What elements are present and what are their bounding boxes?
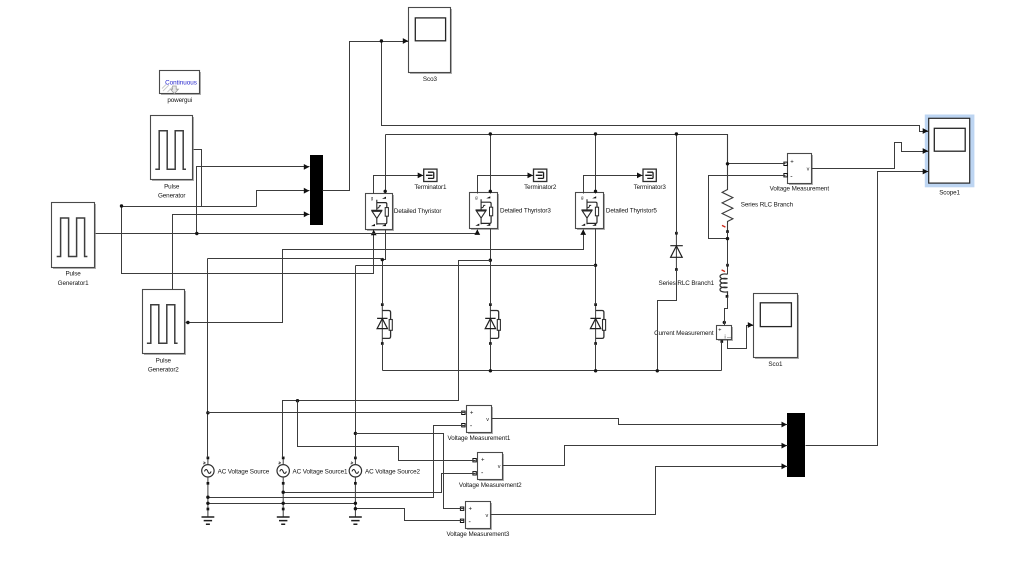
wire Mux2 output to Scope1 [806, 169, 929, 446]
Pulse Generator2 label [148, 357, 179, 373]
voltmeter Voltage Measurement1 label [448, 435, 511, 442]
wire neutral rail [208, 503, 356, 505]
wire Voltage Measurement2 minus [284, 474, 476, 493]
scope Sco3 label [423, 76, 438, 83]
svg-text:Terminator3: Terminator3 [634, 184, 667, 191]
wire Voltage Measurement minus [709, 176, 786, 239]
wire gate signal to Scope1 in1 [382, 42, 929, 134]
svg-text:Terminator1: Terminator1 [414, 184, 447, 191]
Pulse Generator1 label [58, 271, 89, 287]
wire mux in2 from Pulse Generator [257, 188, 310, 207]
junction bus-thy5 [594, 132, 597, 193]
voltmeter Voltage Measurement2 ports [473, 459, 476, 476]
powergui block [160, 71, 202, 96]
junction phaseC-col3 [594, 264, 597, 267]
junction thyristor1 anode [384, 190, 387, 193]
junction bus-freewheel [675, 132, 678, 135]
svg-text:Pulse: Pulse [156, 357, 172, 364]
svg-text:Voltage Measurement3: Voltage Measurement3 [447, 531, 510, 538]
wire Voltage Measurement2 plus [298, 401, 476, 461]
svg-text:Series RLC Branch: Series RLC Branch [741, 202, 794, 209]
voltmeter Voltage Measurement1 ports [462, 411, 465, 427]
junction neutral-B1 [282, 491, 285, 494]
svg-text:+: + [790, 160, 794, 166]
junction bus-d2 [489, 369, 492, 372]
voltmeter Voltage Measurement2 label [459, 482, 522, 489]
mux Mux2 [787, 413, 805, 477]
voltmeter Voltage Measurement [788, 154, 814, 186]
junction phaseB-VM2 [296, 399, 299, 402]
scope Scope1 label [939, 189, 960, 196]
wire diode2 bottom [490, 344, 492, 371]
wire phase C riser [355, 266, 357, 458]
wire Voltage Measurement plus [728, 163, 786, 165]
junction neutral-C1 [354, 507, 357, 510]
terminator Terminator2 label [524, 184, 557, 191]
svg-text:+: + [718, 328, 721, 334]
svg-text:+: + [470, 410, 474, 416]
diode Series RLC Branch1 label [658, 280, 714, 287]
svg-text:Terminator2: Terminator2 [524, 184, 557, 191]
wire Voltage Measurement3 minus [356, 509, 464, 521]
voltmeter Voltage Measurement3 label [447, 531, 510, 538]
ammeter ports [720, 321, 726, 343]
wire Voltage Measurement3 output [491, 463, 788, 514]
wire thyristor5 anode riser [595, 135, 597, 194]
svg-text:v: v [807, 167, 810, 173]
junction neutral dots [206, 502, 357, 505]
wire mux in1 from Pulse Generator1 [197, 164, 310, 234]
wire R to L link [727, 232, 729, 266]
AC source AC Voltage Source1 label [293, 468, 349, 475]
svg-text:AC Voltage Source1: AC Voltage Source1 [293, 468, 349, 475]
svg-text:Generator1: Generator1 [58, 280, 89, 287]
junction bus-freewheel-bot [656, 369, 659, 372]
wire thyristor1 anode riser [385, 135, 387, 194]
svg-text:Voltage Measurement2: Voltage Measurement2 [459, 482, 522, 489]
svg-text:v: v [498, 464, 501, 470]
svg-text:Sco3: Sco3 [423, 76, 438, 83]
voltmeter Voltage Measurement ports [784, 162, 787, 177]
wire phase C link [356, 265, 596, 267]
voltmeter Voltage Measurement label [770, 186, 830, 193]
thyristor Detailed Thyristor label [394, 208, 441, 215]
wire Mux1 output to Sco3 [323, 38, 409, 190]
inductor Series RLC Branch inductor [720, 265, 728, 296]
wire Voltage Measurement3 plus [356, 434, 464, 509]
AC source AC Voltage Source1 [277, 457, 289, 509]
wire bottom bus [383, 370, 722, 372]
thyristor Detailed Thyristor5 [576, 193, 606, 231]
svg-text:Series RLC Branch1: Series RLC Branch1 [658, 280, 714, 287]
mux Mux1 [310, 155, 323, 225]
voltmeter Voltage Measurement3 ports [460, 507, 463, 523]
wire Voltage Measurement1 minus [208, 426, 465, 498]
AC source AC Voltage Source2 label [365, 468, 421, 475]
Pulse Generator1 block [52, 203, 97, 270]
svg-text:Pulse: Pulse [164, 183, 180, 190]
resistor Series RLC Branch port [726, 230, 729, 233]
svg-text:v: v [486, 417, 489, 423]
resistor Series RLC Branch label [741, 202, 794, 209]
scope Sco1 label [768, 361, 783, 368]
terminator Terminator3 [643, 169, 656, 181]
voltmeter Voltage Measurement1 [467, 406, 494, 435]
wire L to Current Measurement [725, 297, 728, 326]
Pulse Generator block [151, 116, 195, 182]
svg-text:+: + [469, 507, 473, 513]
junction VM plus node [726, 162, 729, 165]
resistor Series RLC Branch [722, 134, 733, 231]
terminator Terminator1 label [414, 184, 447, 191]
diode D1 (snubber branch under Detailed Thyristor) [377, 303, 392, 345]
wire pulse1 distribution [122, 206, 257, 208]
Pulse Generator2 block [143, 290, 187, 356]
wire thyristor5 cathode to diode3 [595, 229, 597, 305]
wire Current Measurement bottom [721, 342, 723, 371]
ammeter Current Measurement [717, 326, 734, 342]
powergui label [167, 97, 192, 104]
svg-text:Voltage Measurement1: Voltage Measurement1 [448, 435, 511, 442]
svg-text:Detailed Thyristor3: Detailed Thyristor3 [500, 208, 551, 215]
wire Voltage Measurement1 output [492, 419, 788, 428]
wire phase A link [208, 258, 383, 260]
wire thyristor3 m to Terminator2 [478, 173, 534, 194]
scope Sco3 block [409, 8, 453, 75]
junction Sco3 node [380, 39, 383, 42]
wire phase A riser [207, 259, 209, 458]
junction neutral-A1 [206, 496, 209, 499]
AC source AC Voltage Source [202, 457, 214, 509]
wire Pulse Generator output [194, 150, 202, 207]
svg-text:Generator: Generator [158, 193, 185, 200]
scope Sco1 block [754, 294, 800, 360]
svg-text:AC Voltage Source: AC Voltage Source [218, 468, 270, 475]
wire thyristor3 anode riser [490, 135, 492, 194]
svg-text:powergui: powergui [167, 97, 192, 104]
wire phase B link [283, 261, 491, 458]
wire Current Measurement output to Sco1 [728, 322, 754, 348]
svg-text:Sco1: Sco1 [768, 361, 783, 368]
svg-text:Detailed Thyristor: Detailed Thyristor [394, 208, 441, 215]
svg-text:i: i [725, 335, 726, 341]
svg-text:Detailed Thyristor5: Detailed Thyristor5 [606, 208, 657, 215]
voltmeter Voltage Measurement2 [478, 453, 505, 482]
thyristor Detailed Thyristor5 label [606, 208, 657, 215]
wire thyristor1 cathode to diode1 [383, 230, 386, 305]
svg-text:v: v [486, 513, 489, 519]
Pulse Generator label [158, 183, 185, 199]
svg-text:Pulse: Pulse [65, 271, 81, 278]
diode D3 (snubber branch under Detailed Thyristor5) [590, 303, 605, 345]
terminator Terminator2 [534, 169, 547, 181]
ground symbol under AC Voltage Source1 [277, 508, 290, 525]
svg-text:Scope1: Scope1 [939, 189, 960, 196]
ground symbol under AC Voltage Source [202, 508, 215, 525]
junction phaseA-col1 [381, 258, 384, 261]
terminator Terminator3 label [634, 184, 667, 191]
inductor ports [726, 264, 729, 298]
scope Scope1 block [925, 115, 975, 188]
junction bus-thy3 [489, 132, 492, 193]
wire thyristor1 m to Terminator1 [374, 173, 424, 194]
junction bus-d3 [594, 369, 597, 372]
junction VM minus node [726, 237, 729, 240]
thyristor Detailed Thyristor3 label [500, 208, 551, 215]
wire thyristor3 cathode to diode2 [490, 229, 492, 305]
svg-text:Current Measurement: Current Measurement [654, 330, 714, 337]
terminator Terminator1 [424, 169, 437, 181]
junction phaseC-VM3 [354, 432, 357, 435]
svg-text:Voltage Measurement: Voltage Measurement [770, 186, 830, 193]
ammeter Current Measurement label [654, 330, 714, 337]
diode Series RLC Branch1 [670, 232, 683, 271]
AC source AC Voltage Source2 [349, 457, 361, 509]
junction pulse2 node [195, 232, 198, 235]
voltmeter Voltage Measurement3 [466, 502, 493, 531]
svg-text:+: + [481, 458, 485, 464]
thyristor Detailed Thyristor3 [470, 193, 500, 231]
svg-text:Generator2: Generator2 [148, 367, 179, 374]
junction phaseB-col2 [489, 259, 492, 262]
wire load branch top [727, 135, 729, 190]
wire mux in3 from Pulse Generator2 [173, 211, 310, 289]
svg-text:AC Voltage Source2: AC Voltage Source2 [365, 468, 421, 475]
wire diode1 bottom [382, 344, 384, 371]
wire thyristor1 gate [122, 207, 377, 274]
wire freewheel branch riser [676, 135, 678, 234]
wire Pulse Generator1 output to thyristor3 gate [96, 229, 481, 235]
diode D2 (snubber branch under Detailed Thyristor3) [485, 303, 500, 345]
wire Pulse Generator2 output to thyristor5 gate [186, 229, 587, 322]
ground symbol under AC Voltage Source2 [349, 509, 362, 524]
wire freewheel bottom [658, 270, 677, 371]
AC source AC Voltage Source label [218, 468, 270, 475]
svg-text:Continuous: Continuous [165, 80, 197, 87]
junction pulse1 node [120, 204, 123, 207]
junction pulse3 node [186, 321, 189, 324]
wire top DC bus [386, 134, 728, 136]
thyristor Detailed Thyristor [366, 194, 395, 232]
svg-text:—: — [727, 334, 732, 339]
junction phaseA-VM1 [206, 411, 209, 414]
wire Voltage Measurement2 output [503, 443, 788, 466]
wire Voltage Measurement1 plus [208, 412, 465, 414]
wire Voltage Measurement output to Scope1 [812, 143, 929, 169]
wire thyristor5 m to Terminator3 [584, 173, 643, 194]
wire diode3 bottom [595, 344, 597, 371]
